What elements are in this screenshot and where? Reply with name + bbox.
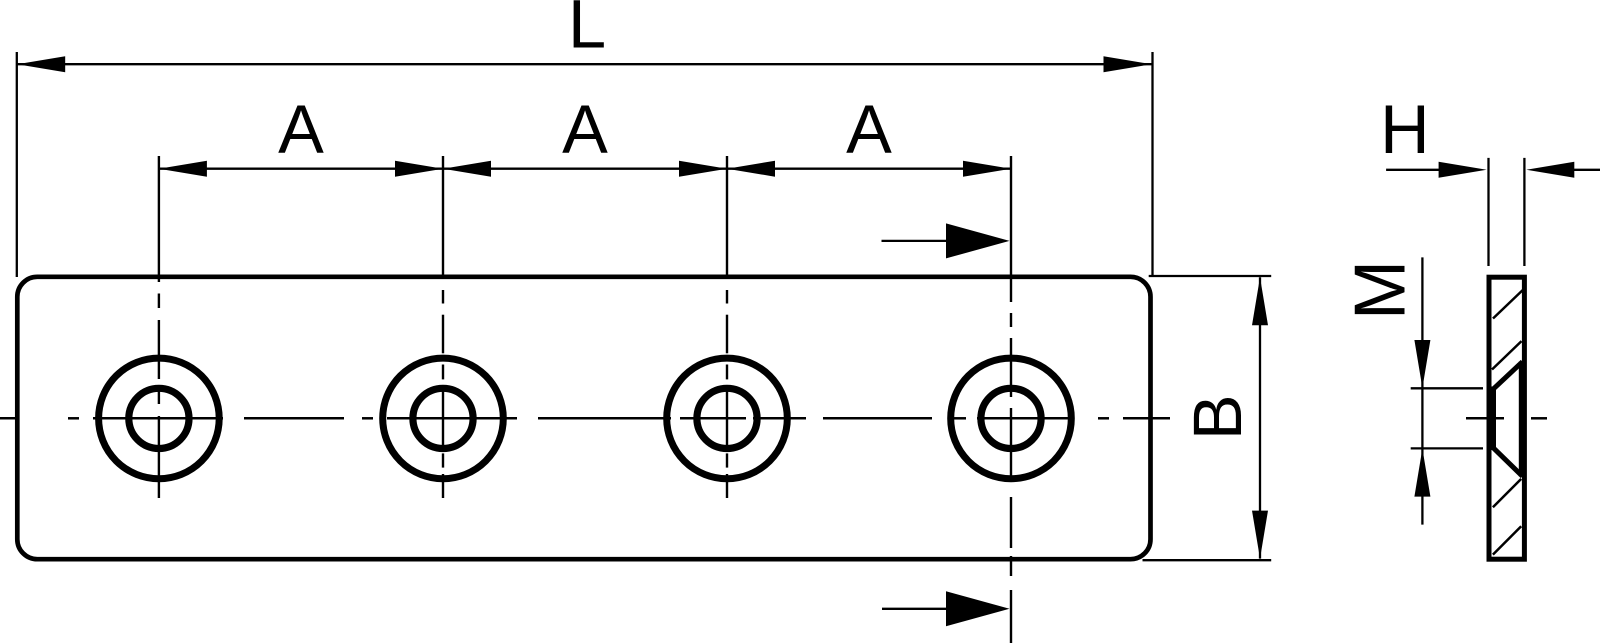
dimension H right extension line: [1523, 158, 1525, 266]
svg-text:M: M: [1341, 260, 1421, 320]
dimension B bottom extension line: [1143, 559, 1272, 561]
hole 3 outer circle: [667, 358, 788, 479]
dimension B top arrowhead: [1252, 277, 1268, 325]
dimension H left extension line: [1487, 158, 1489, 266]
dimension M line (vertical): [1421, 257, 1423, 524]
horizontal centerline (dash-dot through all holes): [0, 417, 1170, 420]
dimension H left arrowhead (points right): [1439, 162, 1487, 178]
side view hatch bottom 2: [1493, 526, 1521, 554]
svg-text:B: B: [1179, 394, 1256, 440]
hole 2 vertical centerline / A extension: [442, 156, 444, 498]
dimension M bottom arrowhead (points up): [1414, 449, 1430, 497]
svg-text:A: A: [278, 91, 324, 168]
hole 1 inner circle: [129, 388, 189, 448]
dimension A line (spans three hole pitches): [159, 168, 1011, 170]
dimension M bottom extension line: [1411, 447, 1483, 449]
hole 3 vertical centerline / A extension: [726, 156, 728, 498]
side view countersink hole (white): [1494, 362, 1522, 477]
dimension B line: [1259, 277, 1261, 558]
dimension L right arrowhead: [1104, 56, 1152, 72]
side view hatch top 1: [1493, 290, 1523, 319]
dimension B bottom arrowhead: [1252, 511, 1268, 559]
side view countersink mouth edge (right): [1519, 362, 1523, 477]
dimension B top extension line: [1149, 275, 1272, 277]
svg-text:A: A: [846, 91, 892, 168]
dimension L left extension line: [16, 52, 18, 277]
dimension M top arrowhead (points down): [1414, 340, 1430, 388]
side view hatch bottom 1: [1493, 479, 1521, 507]
section arrow top: [882, 240, 949, 242]
svg-text:L: L: [568, 0, 606, 63]
hole 4 inner circle: [981, 388, 1041, 448]
hole 2 outer circle: [383, 358, 504, 479]
svg-text:H: H: [1380, 91, 1429, 168]
dimension L line: [17, 63, 1151, 65]
side view centerline: [1466, 417, 1504, 420]
dimension L right extension line: [1151, 52, 1153, 277]
plate outline (front view): [17, 277, 1150, 559]
dimension A arrowhead at hole 4: [963, 161, 1011, 177]
dimension H line right segment: [1572, 169, 1600, 171]
hole 1 vertical centerline / A extension: [158, 156, 160, 498]
side view hole left land edge: [1491, 387, 1496, 451]
section arrow bottom: [882, 608, 948, 610]
hole 2 inner circle: [413, 388, 473, 448]
hole 4 vertical centerline / section axis: [1010, 156, 1012, 643]
side view outline (section): [1489, 277, 1524, 559]
svg-text:A: A: [562, 91, 608, 168]
hole 3 inner circle: [697, 388, 757, 448]
dimension H line left segment: [1386, 169, 1441, 171]
dimension L left arrowhead: [17, 56, 65, 72]
dimension M top extension line: [1411, 387, 1483, 389]
side view hatch top 2: [1492, 341, 1522, 369]
dimension H right arrowhead (points left): [1526, 162, 1574, 178]
hole 4 outer circle: [951, 358, 1072, 479]
dimension A arrowhead at hole 1: [159, 161, 207, 177]
side view countersink chamfer top: [1493, 362, 1523, 390]
dimension A arrowheads at hole 3: [679, 161, 727, 177]
side view countersink chamfer bottom: [1493, 448, 1523, 477]
hole 1 outer circle: [99, 358, 220, 479]
dimension A arrowheads at hole 2: [395, 161, 443, 177]
